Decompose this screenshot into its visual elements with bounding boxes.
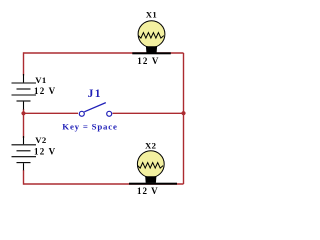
filament X2 [138,163,163,169]
wire middle right segment [113,112,184,114]
svg-text:J1: J1 [88,88,102,100]
base X1 [146,46,157,52]
base bar X2 [129,183,177,185]
wire right edge [183,53,185,184]
wire middle left segment [24,112,79,114]
lamp X1 [132,21,171,55]
battery V2 [12,136,37,170]
battery V1 [12,74,37,110]
svg-text:X2: X2 [145,140,156,150]
svg-text:12 V: 12 V [34,147,56,157]
base bar X1 [132,52,171,54]
svg-text:V1: V1 [35,75,46,85]
svg-text:12 V: 12 V [137,56,159,66]
switch J1 [79,103,111,117]
wire left edge bottom segment [23,170,25,185]
junction right [181,111,185,115]
lamp X2 [129,151,177,185]
svg-text:X1: X1 [146,10,157,20]
svg-text:12 V: 12 V [137,186,159,196]
junction left [21,111,25,115]
base X2 [145,176,156,183]
wire left edge top segment [23,52,25,75]
svg-text:12 V: 12 V [34,86,56,96]
wire left edge middle segment [23,109,25,138]
wire bottom edge [24,183,184,185]
filament X1 [138,33,163,39]
svg-text:V2: V2 [35,135,46,145]
wire top edge [24,52,184,54]
svg-text:Key = Space: Key = Space [62,121,117,131]
